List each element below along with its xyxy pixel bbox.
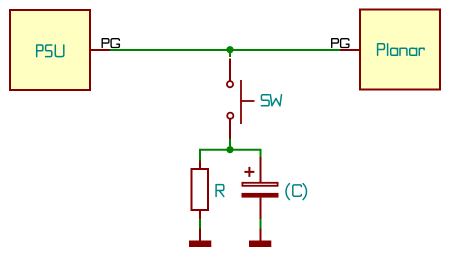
capacitor C top plate — [242, 183, 277, 186]
ground symbol left — [189, 241, 211, 248]
switch SW actuator stem — [241, 100, 255, 102]
capacitor C plus sign — [244, 167, 254, 177]
Planar box body — [360, 10, 440, 90]
switch SW contact circle bottom — [227, 113, 233, 119]
capacitor C bottom plate — [242, 193, 279, 198]
resistor R reference label — [216, 185, 224, 197]
label PG right — [332, 39, 349, 48]
switch SW actuator bar — [240, 80, 242, 124]
switch SW reference label — [261, 95, 281, 106]
switch SW pin 2 — [229, 119, 231, 139]
pin of Planar (PG input) — [340, 49, 359, 51]
capacitor C pin 1 — [260, 157, 262, 182]
switch SW contact circle top — [227, 81, 233, 87]
resistor R body — [192, 169, 209, 210]
label PG left — [102, 39, 119, 48]
capacitor C pin 2 — [260, 198, 262, 219]
junction node bottom — [226, 146, 233, 153]
switch SW pin 1 — [229, 59, 231, 81]
wire R to ground — [199, 219, 201, 229]
junction node top — [226, 46, 233, 53]
wire junction to C branch — [230, 150, 261, 157]
ground right pin — [260, 229, 262, 241]
pin of PSU (PG output) — [91, 49, 110, 51]
PSU box body — [10, 10, 90, 90]
PSU value label — [37, 45, 64, 57]
resistor R pin 2 — [199, 210, 201, 219]
wire junction to R branch — [200, 150, 230, 161]
wire from switch to bottom junction — [229, 139, 231, 150]
wire stub from top junction down — [229, 50, 231, 57]
wire PG horizontal — [110, 49, 340, 51]
capacitor C value label (C) — [286, 184, 307, 200]
wire C to ground — [260, 219, 262, 229]
ground left pin — [199, 229, 201, 241]
Planar value label — [378, 44, 425, 55]
ground symbol right — [249, 241, 271, 248]
resistor R pin 1 — [199, 161, 201, 170]
